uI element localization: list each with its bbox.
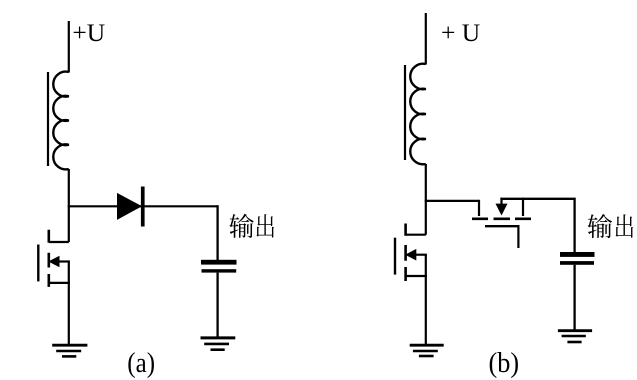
- inductor L2 winding: [410, 64, 426, 165]
- inductor L2 core bar: [404, 65, 406, 160]
- wire +U supply lead (b): [425, 13, 427, 65]
- wire Q2 body/source to ground (b): [425, 255, 427, 345]
- ground symbol under C1 (a): [201, 338, 236, 350]
- transistor Q3 source lead: [522, 198, 524, 216]
- inductor L1 winding: [53, 72, 69, 170]
- wire node A to diode and output (a): [68, 205, 218, 207]
- diode D1 cathode bar: [141, 187, 145, 227]
- caption (a): [127, 346, 155, 378]
- transistor Q2 source lead: [406, 275, 427, 277]
- transistor Q2 body lead with arrow: [411, 254, 427, 256]
- inductor L1 core bar: [47, 72, 49, 166]
- transistor Q1 body arrowhead: [48, 256, 59, 268]
- transistor Q1 source lead: [49, 282, 70, 284]
- transistor Q2 body arrowhead: [405, 249, 416, 261]
- wire diode cathode to capacitor C1 (a): [216, 205, 218, 260]
- ground symbol under Q1 (a): [52, 345, 87, 356]
- wire C2 to ground (b): [573, 265, 575, 331]
- ground symbol under C2 (b): [558, 331, 592, 342]
- ground symbol under Q2 (b): [410, 345, 444, 356]
- transistor Q3 drain lead down: [478, 200, 480, 216]
- svg-text:+ U: + U: [441, 18, 480, 47]
- wire node B to Q3 drain (b): [425, 200, 479, 202]
- diode D1 anode triangle: [118, 194, 142, 219]
- label output text (b) : 输出: [588, 214, 634, 238]
- label output text (a) : 输出: [229, 214, 274, 238]
- wire L1 to node A / Q1 drain: [68, 169, 70, 242]
- transistor Q2 gate bar: [394, 238, 396, 275]
- capacitor C1 top plate: [201, 260, 237, 265]
- wire Q1 body/source to ground (a): [68, 262, 70, 346]
- capacitor C1 bottom plate: [202, 269, 237, 272]
- transistor Q3 body lead with arrow (down): [500, 198, 502, 206]
- transistor Q2 drain lead: [406, 234, 426, 236]
- wire C1 to ground (a): [216, 273, 218, 338]
- transistor Q2 channel segments: [404, 224, 407, 282]
- caption (b): [489, 346, 520, 379]
- wire +U supply lead (a): [68, 21, 70, 73]
- transistor Q3 channel segments (horizontal): [472, 218, 531, 221]
- transistor Q1 gate bar: [37, 245, 39, 282]
- transistor Q3 gate bar: [485, 225, 520, 227]
- transistor Q3 gate lead: [517, 226, 519, 248]
- transistor Q1 drain lead: [49, 241, 69, 243]
- wire L2 to node B / Q2 drain: [425, 164, 427, 235]
- transistor Q1 channel segments: [47, 230, 50, 287]
- capacitor C2 bottom plate: [560, 261, 594, 265]
- capacitor C2 top plate: [560, 252, 595, 257]
- svg-text:+U: +U: [72, 18, 105, 47]
- svg-text:(b): (b): [489, 346, 520, 379]
- transistor Q3 body arrowhead: [496, 204, 508, 216]
- wire Q3 to output capacitor (b): [500, 199, 574, 252]
- transistor Q1 body lead with arrow: [54, 260, 70, 262]
- svg-text:(a): (a): [127, 346, 155, 378]
